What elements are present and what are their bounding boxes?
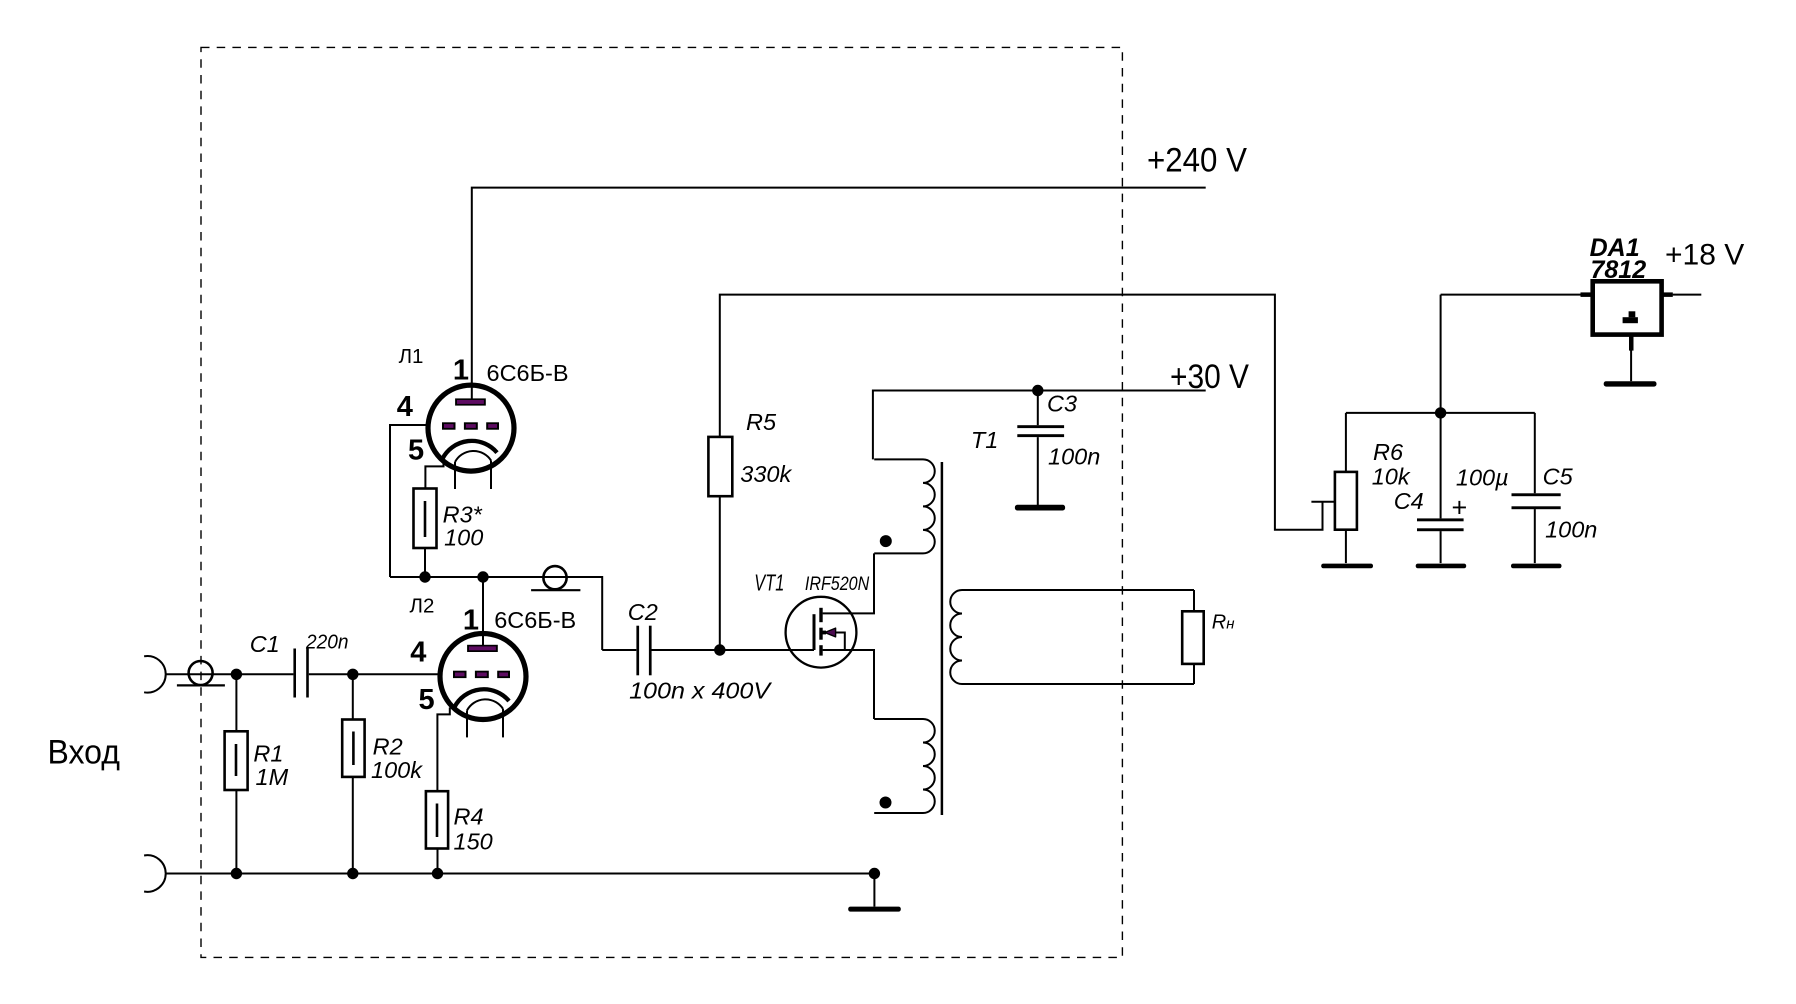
wire R6 bottom <box>1345 530 1347 563</box>
junction R6/C4/C5/DA1 node <box>1435 407 1446 418</box>
svg-text:+30 V: +30 V <box>1170 358 1249 396</box>
trimmer resistor R6 <box>1335 472 1357 530</box>
svg-text:5: 5 <box>408 435 424 467</box>
svg-text:6С6Б-В: 6С6Б-В <box>487 360 569 386</box>
svg-text:+18 V: +18 V <box>1665 239 1744 272</box>
svg-text:C3: C3 <box>1047 391 1077 417</box>
voltage regulator DA1 7812 <box>1581 281 1673 350</box>
resistor R2 <box>342 720 364 777</box>
svg-text:Л1: Л1 <box>399 345 424 368</box>
transformer phase dot upper <box>880 535 892 547</box>
wire ground stub T1 <box>873 874 875 907</box>
svg-text:R5: R5 <box>746 409 777 435</box>
vacuum tube Л1 6С6Б-В <box>428 385 514 489</box>
junction C3 on +30V rail <box>1032 385 1043 396</box>
wire R4 bottom <box>437 849 439 874</box>
svg-text:4: 4 <box>397 391 413 423</box>
svg-text:Вход: Вход <box>48 733 121 771</box>
svg-text:+: + <box>1452 493 1468 523</box>
wire DA1 ground pin <box>1630 350 1632 381</box>
svg-text:C4: C4 <box>1394 488 1424 514</box>
wire C5 bottom <box>1534 509 1536 563</box>
svg-text:C5: C5 <box>1543 464 1574 490</box>
junction R5/C2/gate node <box>714 644 725 655</box>
wire C1 to Л2 grid <box>309 673 439 675</box>
ground symbol at T1 <box>848 907 901 912</box>
wire R2 top <box>352 674 354 719</box>
svg-text:100µ: 100µ <box>1456 465 1509 491</box>
capacitor C3 <box>1017 425 1064 437</box>
wire C5 top <box>1534 413 1536 493</box>
svg-text:6С6Б-В: 6С6Б-В <box>494 607 576 633</box>
svg-text:100n: 100n <box>1048 444 1100 470</box>
wire Л2 anode lead <box>482 577 484 646</box>
resistor R3 <box>414 489 437 549</box>
wire DA1 input from node <box>1441 294 1587 296</box>
junction Л2 anode at SRPP node <box>477 571 488 582</box>
svg-text:C1: C1 <box>250 631 280 657</box>
svg-text:100n x 400V: 100n x 400V <box>629 678 772 704</box>
input connector pin bottom <box>144 855 166 892</box>
wire Л1 cathode lead <box>425 459 443 489</box>
wire C4 top <box>1440 413 1442 519</box>
input connector pin top <box>144 656 166 693</box>
ground symbol at C4 <box>1416 564 1467 569</box>
wire R1 top <box>235 674 237 731</box>
wire R1 bottom <box>235 790 237 874</box>
resistor R5 <box>708 437 732 496</box>
wire DA1 output <box>1673 294 1702 296</box>
transformer phase dot lower <box>880 797 892 809</box>
enclosure dashed box <box>201 47 1122 957</box>
transformer T1 secondary winding <box>950 590 1194 684</box>
transistor VT1 IRF520N MOSFET <box>786 597 857 668</box>
wire node vertical to junction <box>1440 295 1442 413</box>
junction T1 return on ground bus <box>869 868 880 879</box>
wire Л1 grid lead <box>390 425 427 577</box>
junction R3 bottom at SRPP node <box>419 571 430 582</box>
wire input to C1 <box>166 673 294 675</box>
ground symbol at C5 <box>1511 564 1562 569</box>
ground symbol at R6 <box>1321 564 1373 569</box>
svg-text:100n: 100n <box>1545 517 1597 543</box>
wire R6 wiper contact bar <box>1311 501 1335 503</box>
wire +30V rail <box>873 391 1206 460</box>
svg-text:1: 1 <box>463 605 479 637</box>
capacitor C2 <box>636 626 651 676</box>
svg-text:5: 5 <box>419 684 435 716</box>
svg-text:150: 150 <box>454 829 493 855</box>
svg-text:R4: R4 <box>454 804 484 830</box>
junction R1 top on input wire <box>231 669 242 680</box>
wire ground bus <box>166 873 875 875</box>
svg-text:100: 100 <box>444 525 483 551</box>
svg-text:7812: 7812 <box>1591 256 1647 284</box>
junction R4 bottom on ground bus <box>432 868 443 879</box>
svg-text:4: 4 <box>410 637 426 669</box>
svg-text:VT1: VT1 <box>754 570 784 596</box>
svg-text:10k: 10k <box>1372 464 1411 490</box>
ground symbol at DA1 <box>1604 381 1657 386</box>
svg-text:T1: T1 <box>971 427 998 453</box>
svg-text:R2: R2 <box>373 734 403 760</box>
svg-text:Л2: Л2 <box>410 595 435 618</box>
svg-text:220n: 220n <box>305 631 348 653</box>
capacitor C4 polarized <box>1417 518 1464 531</box>
junction R2 top on grid wire <box>347 669 358 680</box>
wire SRPP node <box>390 577 602 650</box>
wire C4 bottom <box>1440 531 1442 563</box>
svg-text:100k: 100k <box>371 757 423 783</box>
resistor R4 <box>426 791 448 848</box>
wire C3 top stub <box>1037 391 1039 426</box>
wire VT1 source to T1 lower winding <box>823 650 874 719</box>
transformer T1 upper primary winding <box>874 459 935 553</box>
vacuum tube Л2 6С6Б-В <box>440 634 526 738</box>
capacitor C5 <box>1512 493 1561 509</box>
transformer T1 core <box>941 462 944 815</box>
wire C2 left stub <box>602 649 636 651</box>
wire Л2 cathode lead <box>437 708 449 792</box>
svg-text:330k: 330k <box>740 461 792 487</box>
junction R2 bottom on ground bus <box>347 868 358 879</box>
wire R2 bottom <box>352 777 354 874</box>
svg-text:R6: R6 <box>1373 439 1404 465</box>
transformer T1 lower primary winding <box>874 719 935 813</box>
wire Rн bottom <box>1193 664 1195 684</box>
resistor R1 <box>225 731 248 790</box>
junction R1 bottom on ground bus <box>231 868 242 879</box>
svg-text:Rн: Rн <box>1212 612 1235 634</box>
svg-text:C2: C2 <box>628 599 658 625</box>
ground symbol at C3 <box>1015 505 1065 511</box>
wire VT1 drain to T1 upper winding <box>823 553 874 613</box>
svg-text:1: 1 <box>453 355 469 387</box>
wire R3 bottom <box>424 548 426 577</box>
wire Rн top <box>1193 590 1195 611</box>
wire C3 bottom stub <box>1037 437 1039 505</box>
wire R5 top to R6 wiper <box>720 295 1323 530</box>
wire +240V rail <box>472 188 1206 399</box>
wire junction to R6 and C5 <box>1346 412 1535 414</box>
boundary terminal circle input <box>189 661 213 685</box>
wire gate line C2 to VT1 <box>651 649 814 651</box>
load resistor Rн <box>1182 611 1204 664</box>
svg-text:IRF520N: IRF520N <box>805 574 870 595</box>
test point circle SRPP node <box>543 566 566 589</box>
svg-text:+240 V: +240 V <box>1147 142 1247 180</box>
wire R5 bottom to gate node <box>719 496 721 650</box>
wire R6 top <box>1345 413 1347 472</box>
svg-text:R1: R1 <box>253 741 283 767</box>
svg-text:1M: 1M <box>256 764 289 790</box>
capacitor C1 <box>293 649 308 698</box>
